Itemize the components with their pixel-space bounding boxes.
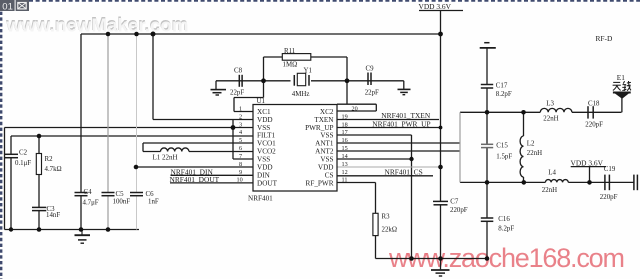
svg-text:C5: C5: [116, 191, 125, 198]
svg-text:2: 2: [239, 113, 242, 120]
svg-text:RF_PWR: RF_PWR: [306, 179, 334, 187]
svg-text:R11: R11: [284, 48, 296, 55]
svg-text:1MΩ: 1MΩ: [283, 61, 298, 68]
svg-text:C17: C17: [496, 82, 508, 89]
svg-text:L4: L4: [548, 169, 556, 176]
svg-text:9: 9: [239, 169, 242, 176]
svg-text:VDD: VDD: [257, 116, 273, 124]
svg-text:4MHz: 4MHz: [292, 91, 310, 98]
svg-text:13: 13: [342, 161, 348, 168]
svg-text:8: 8: [239, 161, 242, 168]
svg-text:22pF: 22pF: [230, 90, 244, 97]
svg-text:U1: U1: [257, 97, 266, 105]
svg-text:VDD 3.6V: VDD 3.6V: [419, 2, 452, 11]
svg-text:11: 11: [342, 176, 348, 183]
svg-text:22nH: 22nH: [543, 115, 558, 122]
svg-text:Y1: Y1: [304, 68, 313, 75]
svg-text:7: 7: [239, 153, 242, 160]
svg-text:16: 16: [342, 137, 348, 144]
svg-text:4.7μF: 4.7μF: [83, 199, 99, 206]
svg-text:NRF401_PWR_UP: NRF401_PWR_UP: [372, 119, 430, 128]
svg-text:XC2: XC2: [320, 108, 334, 116]
svg-text:TXEN: TXEN: [314, 116, 334, 124]
svg-text:R3: R3: [382, 214, 391, 221]
svg-text:C8: C8: [234, 67, 243, 74]
svg-text:22pF: 22pF: [365, 90, 379, 97]
svg-text:3: 3: [239, 121, 242, 128]
svg-text:VSS: VSS: [320, 156, 333, 164]
svg-text:8.2pF: 8.2pF: [496, 91, 512, 98]
svg-text:www.newMaker.com: www.newMaker.com: [6, 14, 189, 35]
svg-text:VCO1: VCO1: [257, 140, 276, 148]
svg-text:NRF401: NRF401: [248, 194, 273, 202]
svg-text:1nF: 1nF: [148, 199, 159, 206]
svg-text:C18: C18: [588, 100, 600, 107]
svg-text:C7: C7: [450, 198, 459, 205]
svg-text:L3: L3: [546, 100, 554, 107]
svg-text:14nF: 14nF: [46, 212, 60, 219]
svg-text:ANT1: ANT1: [315, 140, 334, 148]
svg-text:VCO2: VCO2: [257, 148, 276, 156]
svg-text:0.1μF: 0.1μF: [15, 160, 31, 167]
svg-text:19: 19: [342, 113, 348, 120]
svg-text:20: 20: [352, 105, 358, 112]
svg-text:220pF: 220pF: [585, 121, 603, 128]
svg-text:C19: C19: [604, 166, 616, 173]
svg-text:NRF401_CS: NRF401_CS: [385, 167, 423, 176]
svg-text:15: 15: [342, 145, 348, 152]
svg-text:C16: C16: [498, 216, 510, 223]
svg-text:4: 4: [239, 129, 242, 136]
svg-text:18: 18: [342, 121, 348, 128]
svg-text:14: 14: [342, 153, 348, 160]
svg-text:C9: C9: [366, 65, 375, 72]
svg-text:100nF: 100nF: [113, 199, 131, 206]
svg-text:C15: C15: [496, 142, 508, 149]
svg-text:8.2pF: 8.2pF: [498, 225, 514, 232]
svg-text:22nH: 22nH: [542, 187, 557, 194]
svg-text:E1: E1: [617, 73, 625, 82]
svg-text:C6: C6: [146, 191, 155, 198]
svg-text:12: 12: [342, 169, 348, 176]
svg-text:22nH: 22nH: [527, 150, 542, 157]
svg-text:VDD: VDD: [257, 164, 273, 172]
svg-text:C4: C4: [84, 189, 93, 196]
svg-text:FILT1: FILT1: [257, 132, 276, 140]
svg-text:NRF401_DOUT: NRF401_DOUT: [170, 175, 220, 184]
svg-text:L1 22nH: L1 22nH: [153, 153, 178, 161]
svg-text:L2: L2: [527, 140, 535, 147]
svg-text:VSS: VSS: [257, 156, 270, 164]
svg-text:VDD 3.6V: VDD 3.6V: [571, 158, 604, 167]
svg-text:R2: R2: [45, 156, 54, 163]
svg-text:220pF: 220pF: [600, 194, 618, 201]
svg-text:VSS: VSS: [320, 132, 333, 140]
svg-text:6: 6: [239, 145, 242, 152]
svg-text:22kΩ: 22kΩ: [382, 226, 397, 233]
svg-text:4.7kΩ: 4.7kΩ: [45, 166, 62, 173]
svg-text:1: 1: [239, 105, 242, 112]
svg-text:5: 5: [239, 137, 242, 144]
svg-text:C2: C2: [19, 150, 28, 157]
svg-text:ANT2: ANT2: [315, 148, 334, 156]
svg-text:17: 17: [342, 129, 348, 136]
svg-text:XC1: XC1: [257, 108, 271, 116]
svg-text:01: 01: [2, 1, 13, 12]
svg-text:1.5pF: 1.5pF: [496, 153, 512, 160]
svg-text:DOUT: DOUT: [257, 179, 278, 187]
svg-text:10: 10: [237, 177, 243, 184]
svg-text:VDD: VDD: [318, 164, 334, 172]
svg-text:RF-D: RF-D: [596, 34, 614, 43]
svg-text:220pF: 220pF: [450, 207, 468, 214]
